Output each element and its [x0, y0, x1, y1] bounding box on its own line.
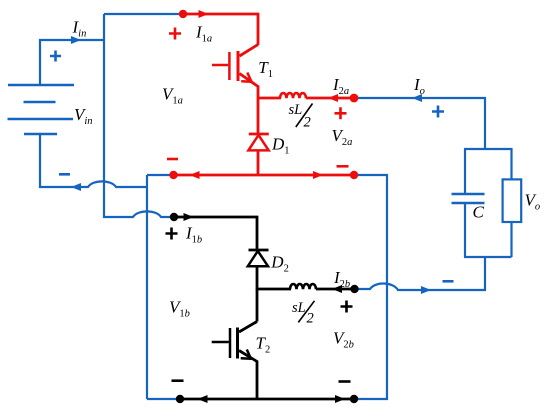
- wire Io: output node to load top: [357, 98, 485, 149]
- inductor sL/2 (b): [290, 284, 316, 289]
- right link rail: V2a- to V2b-: [357, 175, 387, 399]
- svg-text:D1: D1: [271, 135, 290, 157]
- wire: top rail to T1 collector: [183, 14, 258, 45]
- plus sign V1a + (red): [169, 28, 181, 40]
- svg-text:T1: T1: [258, 58, 273, 80]
- arrow Io (left): [412, 94, 422, 102]
- label sL/2 (a): [289, 102, 313, 130]
- minus sign V2a - (red): [337, 165, 349, 168]
- wire: load bottom bar and leads: [464, 203, 512, 257]
- plus sign V2b + (black): [341, 301, 353, 313]
- resistor Vo: [503, 179, 522, 222]
- plus sign V2a + (red): [335, 107, 347, 119]
- junction dot V1a- (red): [169, 171, 177, 179]
- wire: load bottom to I2b node (hop over right link rail): [358, 257, 485, 290]
- wire: inductor b to I2b node: [316, 288, 351, 291]
- arrow I2b (left): [332, 285, 342, 293]
- inductor sL/2 (a): [280, 93, 306, 98]
- junction dot I2a/Io node (red): [350, 94, 359, 103]
- junction dot: top input node (red): [179, 10, 187, 18]
- minus sign V1a - (red): [167, 158, 178, 161]
- svg-text:T2: T2: [256, 334, 271, 356]
- svg-text:2: 2: [304, 114, 311, 130]
- wire: node B to V1b- dot: [147, 398, 177, 400]
- minus sign battery - (blue): [59, 173, 70, 176]
- node A rail: vertical from top wire down, then to V1b+ dot (hop over node B rail): [104, 14, 174, 217]
- arrow black rail (left): [198, 395, 208, 403]
- svg-text:V1a: V1a: [162, 85, 183, 107]
- svg-text:I1a: I1a: [195, 23, 212, 45]
- svg-text:D2: D2: [270, 253, 289, 275]
- svg-text:I1b: I1b: [185, 223, 202, 245]
- junction dot V1b- (black): [176, 395, 184, 403]
- svg-text:sL: sL: [292, 300, 306, 316]
- arrow battery return (left): [71, 183, 81, 191]
- arrow red rail (right): [313, 171, 323, 179]
- label sL/2 (b): [292, 300, 315, 326]
- node B rail: vertical battery negative rail: [146, 175, 148, 399]
- svg-text:I2a: I2a: [332, 75, 349, 97]
- svg-text:C: C: [473, 203, 485, 222]
- arrow I2a (left): [328, 94, 338, 102]
- wire: inductor a to I2a node: [306, 97, 351, 100]
- svg-text:Vo: Vo: [525, 190, 541, 212]
- minus sign V1b - (black): [172, 379, 184, 382]
- wire: D1 to red bottom rail: [257, 150, 260, 175]
- arrow I1b (right): [184, 213, 194, 221]
- black bottom rail V1b-/V2b-: [180, 398, 354, 401]
- diode D1: [248, 134, 268, 150]
- arrow I1a (right): [199, 10, 209, 18]
- capacitor C: [452, 194, 485, 203]
- arrow output return (right): [421, 286, 431, 294]
- wire: emitter node to inductor a: [258, 97, 281, 100]
- svg-text:V2b: V2b: [333, 329, 354, 351]
- svg-text:V1b: V1b: [169, 297, 190, 319]
- red bottom rail V1a-/V2a-: [175, 174, 352, 177]
- junction dot V1b+ (black): [170, 213, 178, 221]
- svg-text:Vin: Vin: [74, 105, 93, 127]
- svg-text:Io: Io: [413, 75, 425, 97]
- svg-text:Iin: Iin: [72, 18, 87, 40]
- wire: node B to V1a- dot: [147, 174, 171, 176]
- plus sign V1b + (black): [166, 228, 178, 240]
- arrow red rail (left): [190, 171, 200, 179]
- wire: D2 to inductor b node: [257, 266, 291, 289]
- svg-text:2: 2: [307, 310, 314, 326]
- diode D2: [248, 250, 269, 266]
- wire: T1 emitter node down to D1: [257, 98, 260, 134]
- transistor T1 (IGBT): [212, 45, 258, 99]
- wire I_in: battery + to node A rail: [40, 40, 103, 85]
- wire: battery - to node B rail (hop over node A rail): [40, 134, 147, 187]
- arrow black rail (right): [335, 395, 345, 403]
- svg-text:V2a: V2a: [332, 126, 353, 148]
- wire: black top rail to D2: [174, 217, 257, 250]
- svg-text:sL: sL: [289, 102, 303, 118]
- plus sign battery + (blue): [50, 51, 61, 62]
- svg-text:I2b: I2b: [333, 268, 350, 290]
- minus sign V2b - (black): [339, 380, 351, 383]
- minus sign output - (blue): [443, 280, 454, 283]
- wire: load top bar and leads: [464, 149, 512, 194]
- junction dot V2a- (red): [350, 171, 358, 179]
- battery Vin plates: [8, 85, 75, 134]
- plus sign output + (blue): [432, 106, 444, 118]
- junction dot I2b (black): [350, 285, 358, 293]
- transistor T2 (IGBT): [212, 322, 257, 400]
- wire: top input blue segment: [104, 13, 180, 15]
- junction dot V2b- (black): [350, 395, 358, 403]
- wire: D2 node down to T2 collector: [256, 289, 259, 322]
- arrow I_in (right): [71, 36, 81, 44]
